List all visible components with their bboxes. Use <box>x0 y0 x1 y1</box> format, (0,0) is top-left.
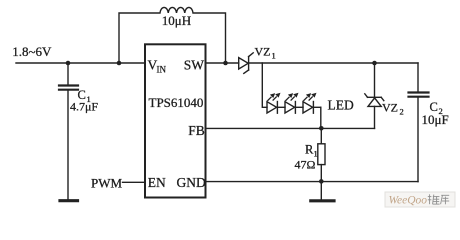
LED D3 arrows <box>304 93 317 101</box>
svg-text:TPS61040: TPS61040 <box>149 95 204 110</box>
svg-text:WeeQoo: WeeQoo <box>389 195 428 207</box>
inductor L1 10uH <box>119 7 226 63</box>
wire GND line <box>206 181 419 183</box>
svg-text:10μH: 10μH <box>162 13 191 28</box>
svg-text:IN: IN <box>157 65 167 75</box>
svg-text:PWM: PWM <box>91 176 123 191</box>
LED D2 <box>285 102 303 114</box>
wire R1 bottom lead <box>320 165 322 182</box>
capacitor C1 <box>59 86 78 90</box>
wire C2 lower lead <box>417 97 419 182</box>
svg-text:10μF: 10μF <box>422 112 449 127</box>
wire C1 lower lead <box>67 90 69 199</box>
wire SW output <box>206 62 239 64</box>
LED D2 arrows <box>286 93 299 101</box>
svg-text:1.8~6V: 1.8~6V <box>12 44 52 59</box>
svg-text:SW: SW <box>184 58 205 73</box>
watermark WeeQoo <box>385 192 455 207</box>
svg-text:VZ: VZ <box>255 45 271 59</box>
node inductor left tap <box>117 61 122 66</box>
svg-text:1: 1 <box>272 51 276 61</box>
node C1 tap <box>66 61 71 66</box>
svg-text:LED: LED <box>328 98 354 113</box>
svg-text:FB: FB <box>188 123 205 138</box>
ground left <box>60 199 78 202</box>
svg-text:VZ: VZ <box>382 101 398 115</box>
svg-text:GND: GND <box>177 175 206 190</box>
ground right <box>311 199 334 202</box>
LED D1 <box>267 102 285 114</box>
wire LED branch drop <box>262 63 267 107</box>
wire EN input <box>123 181 146 183</box>
svg-text:47Ω: 47Ω <box>295 158 316 172</box>
zener VZ2 <box>365 63 384 128</box>
wire LED cathode down to FB node <box>320 107 322 128</box>
wire VZ1 cathode to C2 top <box>249 62 418 64</box>
wire C2 upper lead <box>417 63 419 92</box>
svg-text:2: 2 <box>400 107 404 117</box>
wire FB line <box>206 127 375 129</box>
node R1/GND junction <box>319 179 324 184</box>
diode VZ1 <box>239 53 254 74</box>
node SW/inductor junction <box>223 61 228 66</box>
wire R1 top lead <box>320 128 322 144</box>
LED D1 arrows <box>268 93 281 101</box>
svg-text:4.7μF: 4.7μF <box>70 99 98 113</box>
resistor R1 <box>318 144 325 165</box>
wire ground stub <box>320 181 322 199</box>
node VZ2 top tap <box>372 61 377 66</box>
wire C1 upper lead <box>67 63 69 85</box>
IC U1 TPS61040 <box>145 44 206 197</box>
wire input to VIN <box>16 62 145 64</box>
node FB/LED/R1 junction <box>319 126 324 131</box>
svg-text:EN: EN <box>148 175 166 190</box>
LED D3 <box>303 102 321 114</box>
capacitor C2 <box>409 93 429 97</box>
